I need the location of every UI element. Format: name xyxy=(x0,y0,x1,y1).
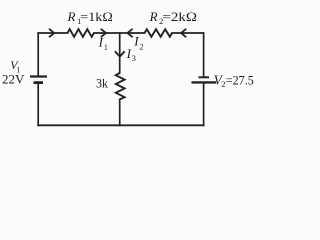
svg-text:=27.5: =27.5 xyxy=(226,73,254,87)
svg-text:R: R xyxy=(149,9,158,24)
wire middle lower xyxy=(119,99,121,125)
arrow right branch (points left, before right corner) xyxy=(181,29,186,37)
svg-text:22V: 22V xyxy=(2,72,25,87)
resistor R1 xyxy=(68,29,94,37)
svg-text:I: I xyxy=(126,46,132,61)
wire top-right segment xyxy=(172,32,204,34)
svg-text:=1kΩ: =1kΩ xyxy=(80,10,113,24)
wire top-left segment xyxy=(38,32,67,34)
battery V2 xyxy=(192,77,217,82)
svg-text:3k: 3k xyxy=(96,75,108,90)
wire top-middle segment xyxy=(94,32,145,34)
arrow I2 (points left) xyxy=(127,29,132,37)
svg-text:2: 2 xyxy=(139,42,143,51)
arrow source current (top-left, points right) xyxy=(49,29,54,37)
wire left lower xyxy=(37,84,39,126)
svg-text:I: I xyxy=(98,35,104,50)
resistor R2 xyxy=(145,29,173,37)
label R1=1kΩ xyxy=(67,9,113,26)
svg-text:1: 1 xyxy=(104,43,108,52)
wire left upper xyxy=(37,33,39,75)
wire middle upper xyxy=(119,33,121,73)
label V2=27.5 xyxy=(214,72,254,89)
label R2=2kΩ xyxy=(149,9,197,26)
svg-text:R: R xyxy=(67,9,76,24)
label I1 xyxy=(98,35,108,52)
wire right upper xyxy=(203,33,205,76)
svg-text:I: I xyxy=(133,34,139,49)
resistor 3k vertical xyxy=(116,73,125,99)
label I3 xyxy=(126,46,136,63)
wire bottom xyxy=(38,124,203,126)
label I2 xyxy=(133,34,143,52)
svg-text:3: 3 xyxy=(132,54,136,63)
arrow I3 (points down on middle wire) xyxy=(115,51,125,56)
battery V1 xyxy=(30,77,47,83)
label V1 xyxy=(10,58,20,74)
arrow I1 (points right) xyxy=(101,29,106,37)
svg-text:=2kΩ: =2kΩ xyxy=(162,10,197,24)
wire right lower xyxy=(203,84,205,126)
